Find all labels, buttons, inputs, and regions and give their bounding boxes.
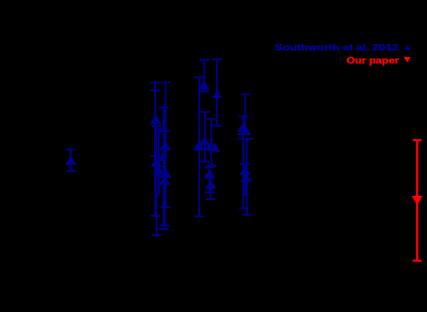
data point marker C6 (Southworth): [204, 169, 216, 178]
error bar B2: [150, 83, 160, 216]
legend marker: Our paper down triangle: [404, 57, 411, 62]
error bar C1: [199, 60, 209, 92]
svg-text:Southworth et al. 2012: Southworth et al. 2012: [275, 43, 399, 53]
error bar C3: [194, 77, 204, 216]
error bar B5: [159, 107, 169, 229]
error bar A1: [66, 149, 76, 171]
data point marker B5 (Southworth): [160, 169, 172, 178]
error bar C2b: [212, 97, 222, 126]
data point marker B4 (Southworth): [160, 141, 172, 150]
error bar C4: [200, 112, 210, 162]
data point marker B1 (Southworth): [150, 115, 162, 124]
data point marker A1 (Southworth): [65, 156, 77, 165]
data point marker C4 (Southworth): [199, 136, 211, 145]
data point marker D3 (Southworth): [240, 173, 252, 182]
error bar C6: [205, 167, 215, 192]
data point marker C7 (Southworth): [205, 180, 217, 189]
error bar D2: [239, 116, 249, 208]
error bar B3: [152, 126, 162, 235]
error bar D3: [238, 139, 253, 215]
data point marker C5b (Southworth): [209, 142, 221, 151]
data point marker C2 (Southworth): [213, 89, 222, 98]
error bar B1: [150, 90, 160, 156]
data point marker D2 (Southworth): [240, 126, 252, 135]
legend marker: Southworth up triangle: [404, 45, 410, 50]
data point marker C5 (Southworth): [205, 142, 217, 151]
error bar R1 (Our paper): [413, 140, 422, 261]
error bar C7: [206, 170, 216, 199]
error bar B6: [160, 131, 170, 226]
error bar C2: [212, 59, 222, 96]
svg-text:Our paper: Our paper: [347, 55, 400, 65]
error bar C5: [207, 119, 217, 166]
data point marker C1 (Southworth): [198, 81, 210, 90]
data point marker B3 (Southworth): [153, 166, 165, 175]
data point marker B4a (Southworth): [158, 153, 166, 161]
data point marker D1 (Southworth): [237, 123, 249, 132]
error bar D4: [240, 164, 250, 196]
data point marker B6 (Southworth): [159, 176, 171, 185]
data point marker D4 (Southworth): [239, 166, 251, 175]
error bar B7: [155, 129, 162, 195]
data point marker C3 (Southworth): [193, 141, 205, 150]
error bar B4: [161, 83, 171, 208]
error bar D1: [238, 94, 251, 134]
data point marker B2 (Southworth): [150, 158, 162, 167]
data point marker R1 (Our paper, down triangle): [412, 196, 423, 205]
